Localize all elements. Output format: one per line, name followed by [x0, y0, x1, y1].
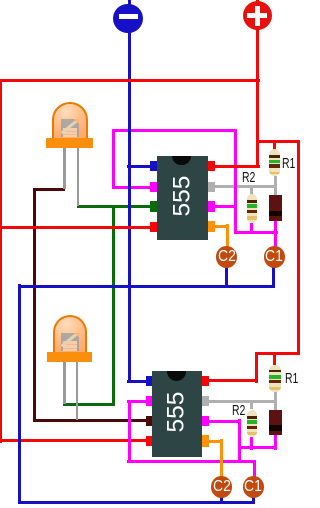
U1 pin2: [150, 182, 157, 193]
U1 pin5: [208, 221, 215, 233]
battery plus terminal: [243, 1, 272, 30]
wire: magenta vertical down at x235: [234, 129, 237, 235]
battery minus terminal: [113, 4, 142, 33]
wire: magenta pin6 vertical: [238, 419, 241, 463]
LED D1 innards: [61, 119, 79, 137]
wire: magenta cap2 bottom stub: [274, 435, 277, 450]
LED D2 dome: [53, 315, 87, 352]
LED D1 dome: [52, 102, 87, 138]
wire: magenta rail2 under R2/C: [238, 446, 278, 449]
wire: red R1 stub: [273, 140, 276, 150]
wire: orange U1 pin5 lead: [214, 225, 229, 228]
LED1 leg left: [63, 146, 66, 189]
wire: gray R1b lower lead: [274, 391, 277, 411]
LED2 leg left: [63, 360, 66, 404]
wire: gray U1 pin7 to R1/C: [212, 185, 277, 188]
wire: maroon from LED1 left leg: [33, 188, 65, 191]
wire: orange vertical to C2b: [220, 439, 223, 478]
wire: blue bottom rail: [18, 501, 255, 504]
U1 pin6: [208, 201, 215, 212]
wire: magenta U1 pin2 lead: [112, 186, 152, 189]
wire: orange U2 pin5 lead: [209, 440, 224, 443]
U2 pin7: [202, 396, 209, 407]
U1 pin4: [150, 222, 157, 233]
U1 pin8: [208, 161, 215, 172]
op-amp U2: 555 timer chip 2: [152, 371, 203, 457]
wire: red rail2 horizontal: [255, 352, 300, 355]
wire: gray R1 lower lead: [274, 176, 277, 196]
label R2 bottom: [232, 404, 245, 419]
U2 label 555: [152, 371, 203, 457]
wire: blue C2 stub: [225, 266, 228, 288]
wire: blue C2b stub: [220, 496, 223, 505]
capacitor C1 (bottom): [243, 476, 265, 498]
wire: magenta U1 pin6 lead: [212, 205, 237, 208]
wire: green vertical branch down: [112, 205, 115, 406]
resistor R2 (bottom): [247, 410, 258, 438]
wire: blue left vertical: [18, 284, 21, 503]
U1 pin7: [208, 182, 215, 193]
capacitor/diode (top, maroon body): [269, 195, 283, 221]
LED2 leg right: [76, 360, 79, 420]
wire: magenta cap bottom / C1 drop: [274, 221, 277, 248]
LED D2 flange: [47, 352, 93, 362]
wire: blue minus vertical: [128, 0, 131, 383]
capacitor C1 (top): [264, 246, 286, 268]
U2 pin6: [202, 416, 209, 427]
capacitor C2 (bottom): [211, 476, 233, 498]
wire: magenta C1b drop: [253, 460, 256, 479]
wire: red U2 pin8 lead: [208, 379, 258, 382]
wire: red U1 pin8 lead: [213, 165, 260, 168]
wire: magenta rail under R2/C: [234, 231, 278, 234]
U2 notch: [167, 371, 186, 381]
wire: magenta top horizontal: [112, 129, 237, 132]
wire: red U2 pin4 lead: [0, 439, 152, 442]
wire: red right vertical: [297, 140, 300, 355]
wire: magenta bottom horizontal: [127, 460, 256, 463]
LED1 leg right: [77, 146, 80, 206]
resistor R1 (top): [269, 149, 280, 176]
wire: maroon vertical: [33, 188, 36, 423]
U2 pin2: [146, 396, 153, 407]
label R1 top: [282, 157, 295, 172]
wire: blue C1b stub: [252, 496, 255, 505]
wire: magenta vertical up: [112, 129, 115, 189]
label R2 top: [242, 171, 255, 186]
wire: magenta U2 pin2 vertical: [128, 400, 131, 464]
wire: magenta R2 bottom stub: [250, 223, 253, 231]
wire: magenta U2 pin2 lead: [127, 400, 152, 403]
LED D2 innards: [61, 333, 79, 351]
wire: blue rail mid: [18, 285, 276, 288]
capacitor/diode (bottom, maroon body): [269, 410, 282, 435]
U2 pin3: [146, 416, 153, 427]
resistor R2 (top): [247, 194, 258, 223]
U1 label 555: [157, 156, 208, 241]
wire: blue C1 stub: [272, 266, 275, 288]
wire: gray R2b top stub: [250, 400, 253, 410]
wire: gray R2 top stub: [250, 185, 253, 195]
wire: maroon horizontal to U2 pin3: [33, 419, 152, 422]
wire: red vertical to rail2: [255, 352, 258, 383]
wire: red R1b stub: [273, 352, 276, 366]
U2 pin4: [146, 436, 153, 447]
wire: magenta U2 pin6 lead: [209, 420, 242, 423]
U1 pin1: [150, 161, 157, 172]
wire: gray U2 pin7 to R1/C: [208, 400, 277, 403]
LED D1 flange: [46, 138, 94, 148]
capacitor C2 (top): [216, 246, 238, 268]
wire: red tee horizontal: [256, 140, 300, 143]
wire: red top rail: [0, 79, 260, 82]
U1 notch: [172, 156, 191, 166]
wire: blue U2 pin1 lead: [127, 380, 152, 383]
label R1 bottom: [285, 372, 298, 387]
wire: red plus vertical: [256, 0, 259, 168]
U2 pin1: [146, 376, 153, 387]
wire: green horizontal to LED2 left leg: [63, 403, 115, 406]
wire: magenta R2b bottom stub: [250, 437, 253, 450]
U2 pin8: [202, 376, 209, 387]
U1 pin3: [150, 201, 157, 212]
wire: red left vertical: [0, 79, 2, 443]
wire: red U1 pin4 lead: [0, 226, 152, 229]
wire: green net LED1 right leg to U1 pin3: [77, 205, 152, 208]
wire: blue U1 pin1 lead: [127, 165, 151, 168]
U2 pin5: [202, 435, 209, 447]
op-amp U1: 555 timer chip 1: [157, 156, 208, 241]
resistor R1 (bottom): [269, 365, 280, 393]
wire: orange vertical to C2: [226, 224, 229, 248]
